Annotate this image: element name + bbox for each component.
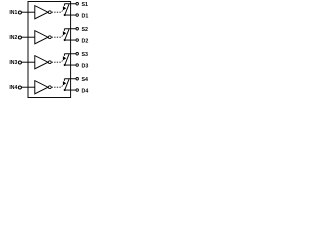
- svg-text:D2: D2: [82, 38, 89, 44]
- svg-text:S3: S3: [82, 52, 89, 58]
- svg-text:IN3: IN3: [9, 60, 17, 66]
- svg-text:D3: D3: [82, 63, 89, 69]
- svg-text:D1: D1: [82, 13, 89, 19]
- svg-text:IN1: IN1: [9, 10, 17, 16]
- svg-text:S1: S1: [82, 2, 89, 8]
- svg-text:IN4: IN4: [9, 85, 17, 91]
- svg-text:S4: S4: [82, 77, 89, 83]
- svg-text:S2: S2: [82, 27, 89, 33]
- svg-text:IN2: IN2: [9, 35, 17, 41]
- svg-text:D4: D4: [82, 88, 89, 94]
